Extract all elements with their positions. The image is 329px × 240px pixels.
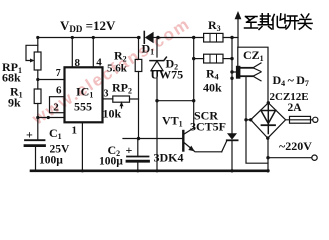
label RP1 68k [2,60,22,85]
wire pin7 [38,79,65,81]
svg-text:40k: 40k [203,81,222,95]
svg-text:10k: 10k [103,107,122,121]
ground rail [31,170,268,173]
wire pin8 [71,38,73,68]
resistor R1 [34,89,41,104]
wire pin1 to ground rail [81,123,83,171]
label to-other-switches (Chinese) [245,14,313,30]
potentiometer RP1 [26,36,41,70]
transistor VT1 [183,131,221,152]
wire pin4 [92,38,94,68]
char zhi [245,17,258,29]
label C2 + 100u [99,143,133,168]
resistor R3 [204,33,238,42]
svg-text:100µ: 100µ [99,155,123,167]
char kai [286,16,299,29]
svg-text:+: + [26,128,33,142]
wire R1 to pin2 node [37,104,39,118]
watermark www.elecfans.com [28,14,194,129]
wire collector line [185,36,196,134]
op... IC 555 timer U1 [50,67,103,122]
bridge rectifier D4-D7 [249,101,286,140]
label D4~D7 2CZ12E 2A [270,73,309,114]
AC 220V terminal [268,155,317,160]
wire base node to VT1 [123,138,182,140]
svg-text:UW75: UW75 [151,68,184,82]
wire socket neutral drop [246,76,268,163]
svg-text:1: 1 [72,125,78,137]
socket CZ1 [232,47,268,103]
label R4 40k [203,67,222,95]
label ~220V [279,139,312,153]
label R3 [208,18,221,33]
pin 7 label [56,68,61,79]
resistor R2 [135,36,142,140]
svg-text:+: + [126,143,133,157]
top supply rail [38,37,139,39]
svg-text:~220V: ~220V [279,139,312,153]
label C1 + 25V 100u [26,126,70,166]
label D2 UW75 [151,57,184,82]
svg-text:68k: 68k [2,71,21,85]
fuse [286,116,318,123]
svg-text:4: 4 [96,57,102,69]
capacitor C2 [127,139,149,173]
label D1 [142,42,155,57]
label CZ1 [243,48,264,63]
potentiometer RP2 [113,96,139,108]
svg-text:3DK4: 3DK4 [154,151,184,165]
char guan [298,14,312,29]
zener diode D2 UW75 [150,38,166,173]
char qi [259,14,273,30]
capacitor C1 [25,118,45,171]
wire pin2 [38,117,65,119]
diode D1 [137,32,159,44]
label SCR 3CT5F [190,109,226,134]
svg-text:2: 2 [53,102,59,114]
svg-text:555: 555 [74,100,92,114]
node main switched line with arrow to other switches [230,11,241,133]
label VPD=12V [60,18,116,34]
svg-text:8: 8 [75,57,81,69]
wire bridge bottom to ground rail [267,138,269,171]
svg-text:100µ: 100µ [39,154,63,166]
label VT1 3DK4 [154,114,184,165]
wire D2 node to collector line [157,100,194,102]
svg-text:7: 7 [56,68,61,79]
node RP1/R1/pin7 junction [37,70,39,89]
resistor R4 [194,54,234,63]
svg-text:6: 6 [56,85,62,97]
svg-text:2A: 2A [288,102,303,114]
svg-text:9k: 9k [8,96,21,110]
svg-text:3: 3 [104,89,109,100]
label R2 5.6k [107,49,128,75]
rail D1 to R3 [159,37,204,39]
svg-text:VDD =12V: VDD =12V [60,18,116,34]
label RP2 10k [103,81,133,121]
SCR 3CT5F [222,133,238,172]
svg-text:D4 ~ D7: D4 ~ D7 [273,73,309,88]
svg-text:5.6k: 5.6k [107,63,128,75]
char ta [272,14,286,29]
label R1 9k [8,85,23,110]
wire pin3 [103,98,113,100]
svg-text:3CT5F: 3CT5F [190,120,226,134]
